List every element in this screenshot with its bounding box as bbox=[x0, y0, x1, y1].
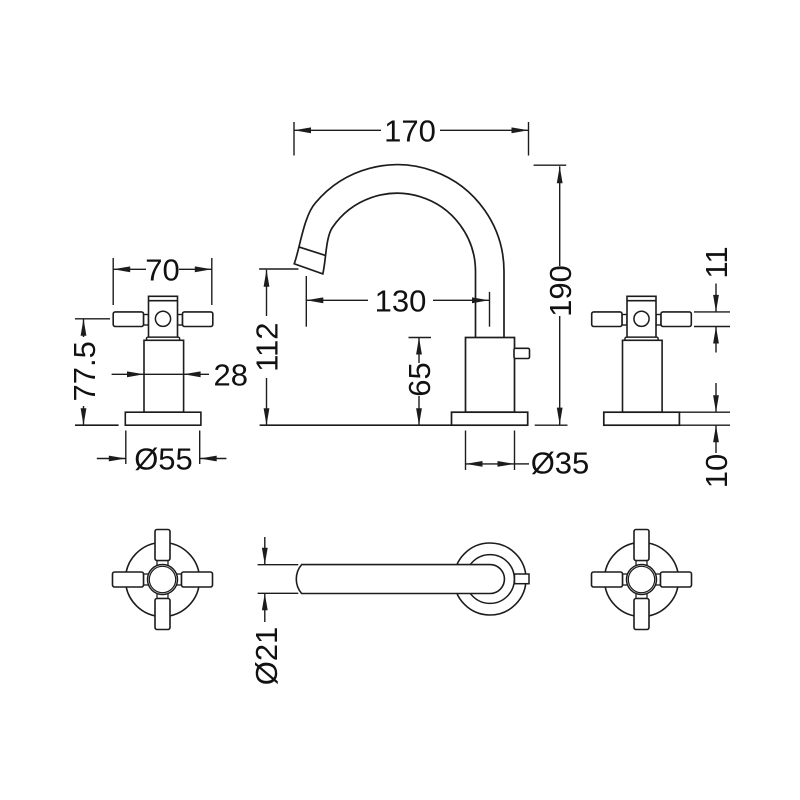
svg-text:Ø21: Ø21 bbox=[249, 627, 284, 686]
svg-text:70: 70 bbox=[145, 253, 179, 288]
svg-text:Ø55: Ø55 bbox=[134, 442, 193, 477]
svg-text:130: 130 bbox=[375, 284, 427, 319]
svg-text:190: 190 bbox=[543, 265, 578, 317]
svg-text:77.5: 77.5 bbox=[67, 341, 102, 401]
svg-text:65: 65 bbox=[402, 362, 437, 396]
svg-text:112: 112 bbox=[250, 322, 285, 371]
svg-text:11: 11 bbox=[699, 246, 734, 278]
svg-text:28: 28 bbox=[213, 358, 247, 393]
svg-text:170: 170 bbox=[384, 114, 436, 149]
svg-text:10: 10 bbox=[699, 454, 734, 488]
svg-text:Ø35: Ø35 bbox=[531, 446, 590, 481]
